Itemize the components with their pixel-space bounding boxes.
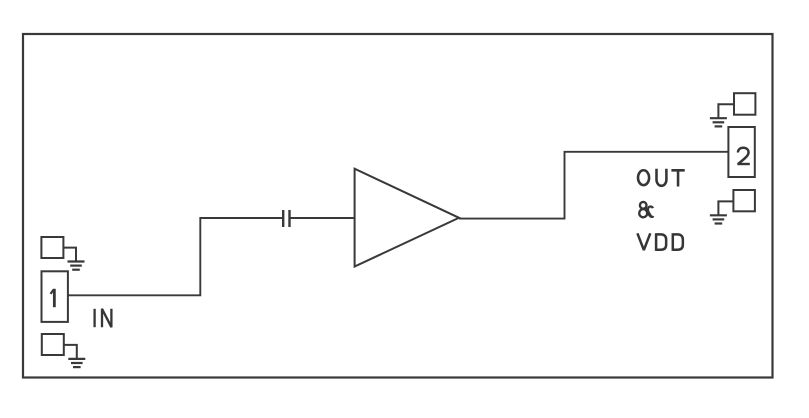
pad P1A (top-left pad square)	[41, 237, 63, 258]
pin 2 (OUT & VDD pad)	[728, 127, 754, 177]
wire pin1 to capacitor	[68, 218, 283, 295]
wire capacitor to amplifier	[290, 217, 355, 219]
pad P2B (bottom-right pad square)	[733, 190, 755, 211]
ground (top-right)	[710, 118, 727, 126]
wire pad P1B to ground	[64, 345, 77, 359]
wire amplifier output to pin 2	[459, 152, 728, 219]
pad P2A (top-right pad square)	[734, 93, 755, 115]
net label OUT	[638, 169, 685, 187]
pin 2 label "2"	[737, 148, 750, 164]
capacitor C1	[283, 210, 289, 227]
net label IN	[95, 309, 112, 327]
net label &	[639, 202, 653, 217]
pad P1B (bottom-left pad square)	[42, 334, 64, 355]
net label VDD	[637, 233, 682, 251]
wire pad P1A to ground	[64, 248, 77, 262]
ground (bottom-left)	[68, 359, 85, 367]
ground (top-left)	[68, 262, 85, 270]
wire pad P2B to ground	[718, 201, 733, 215]
pin 1 label "1"	[51, 289, 55, 307]
chip outline border	[23, 34, 773, 378]
pin 1 (IN pad)	[42, 271, 68, 322]
amplifier U1 (triangle)	[355, 169, 459, 267]
wire pad P2A to ground	[718, 104, 734, 118]
ground (bottom-right)	[710, 215, 727, 223]
